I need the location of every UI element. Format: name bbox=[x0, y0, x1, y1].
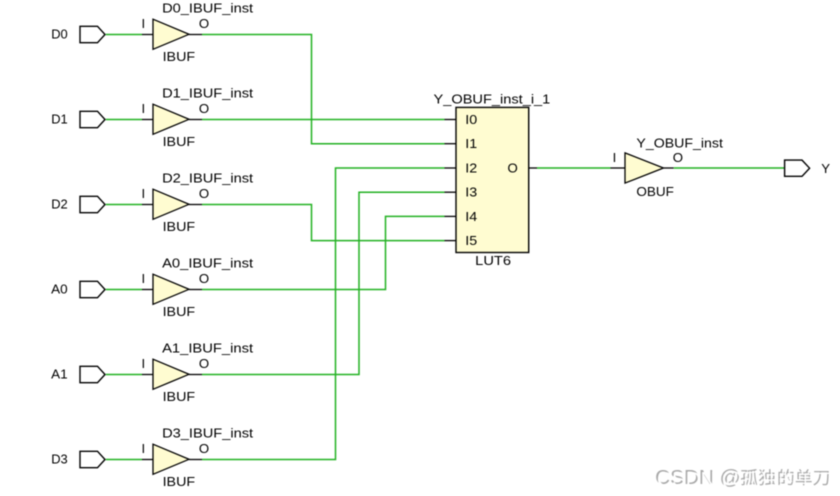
input port D3 bbox=[51, 451, 105, 467]
triangle body of D2_IBUF_inst bbox=[153, 189, 189, 219]
pin I1 of LUT6 bbox=[445, 136, 478, 151]
svg-text:I: I bbox=[141, 356, 145, 371]
wire LUT6 O to Y_OBUF_inst I bbox=[537, 167, 611, 169]
svg-text:I3: I3 bbox=[465, 185, 477, 200]
svg-text:D3_IBUF_inst: D3_IBUF_inst bbox=[162, 425, 253, 440]
svg-text:IBUF: IBUF bbox=[163, 304, 196, 319]
svg-text:D2_IBUF_inst: D2_IBUF_inst bbox=[162, 170, 253, 185]
svg-text:I2: I2 bbox=[465, 160, 477, 175]
buffer D2_IBUF_inst (IBUF) bbox=[141, 170, 253, 234]
svg-text:D1_IBUF_inst: D1_IBUF_inst bbox=[162, 85, 253, 100]
pin O of Y_OBUF_inst bbox=[664, 150, 684, 168]
pin O of D0_IBUF_inst bbox=[189, 16, 209, 34]
svg-text:I: I bbox=[141, 271, 145, 286]
buffer Y_OBUF_inst (OBUF) bbox=[611, 136, 724, 199]
buffer A1_IBUF_inst (IBUF) bbox=[141, 340, 253, 404]
triangle body of A0_IBUF_inst bbox=[153, 274, 189, 304]
pin I4 of LUT6 bbox=[445, 209, 478, 224]
pin I of D1_IBUF_inst bbox=[141, 101, 153, 119]
svg-text:IBUF: IBUF bbox=[163, 134, 196, 149]
input port A1 bbox=[51, 366, 105, 382]
wire D2_IBUF_inst O to LUT6 I5 bbox=[202, 205, 445, 241]
svg-text:I: I bbox=[141, 101, 145, 116]
triangle body of D3_IBUF_inst bbox=[153, 444, 189, 474]
wire A0_IBUF_inst O to LUT6 I4 bbox=[202, 216, 445, 289]
triangle body of Y_OBUF_inst bbox=[625, 153, 664, 183]
svg-text:D1: D1 bbox=[51, 112, 67, 127]
LUT Y_OBUF_inst_i_1 (LUT6) bbox=[434, 91, 551, 268]
svg-text:O: O bbox=[507, 160, 517, 175]
wire A0 port to A0_IBUF_inst I bbox=[106, 289, 142, 291]
svg-text:A0_IBUF_inst: A0_IBUF_inst bbox=[162, 255, 253, 270]
pin I of A0_IBUF_inst bbox=[141, 271, 153, 289]
wire D1 port to D1_IBUF_inst I bbox=[106, 119, 142, 121]
triangle body of D0_IBUF_inst bbox=[153, 19, 189, 49]
svg-text:O: O bbox=[199, 356, 209, 371]
svg-text:OBUF: OBUF bbox=[636, 184, 674, 199]
svg-text:I4: I4 bbox=[465, 209, 477, 224]
svg-text:I1: I1 bbox=[465, 136, 477, 151]
input port D1 bbox=[51, 111, 105, 127]
svg-text:D0_IBUF_inst: D0_IBUF_inst bbox=[162, 0, 253, 15]
svg-text:O: O bbox=[199, 101, 209, 116]
svg-text:A1: A1 bbox=[51, 367, 67, 382]
buffer A0_IBUF_inst (IBUF) bbox=[141, 255, 253, 319]
svg-text:A1_IBUF_inst: A1_IBUF_inst bbox=[162, 340, 253, 355]
wire Y_OBUF_inst O to port Y bbox=[674, 167, 785, 169]
svg-text:I: I bbox=[141, 186, 145, 201]
svg-text:Y_OBUF_inst: Y_OBUF_inst bbox=[636, 136, 723, 151]
wire D0 port to D0_IBUF_inst I bbox=[106, 34, 142, 36]
svg-text:Y: Y bbox=[821, 161, 830, 176]
svg-text:CSDN @: CSDN @ bbox=[657, 468, 743, 491]
svg-text:D0: D0 bbox=[51, 27, 67, 42]
buffer D0_IBUF_inst (IBUF) bbox=[141, 0, 253, 64]
pin O of D2_IBUF_inst bbox=[189, 186, 209, 204]
wire D3 port to D3_IBUF_inst I bbox=[106, 459, 142, 461]
pin O of D3_IBUF_inst bbox=[189, 441, 209, 459]
pin I of Y_OBUF_inst bbox=[611, 150, 626, 168]
svg-text:O: O bbox=[199, 441, 209, 456]
svg-text:IBUF: IBUF bbox=[163, 219, 196, 234]
pin I of D0_IBUF_inst bbox=[141, 16, 153, 34]
buffer D3_IBUF_inst (IBUF) bbox=[141, 425, 253, 489]
LUT6 body bbox=[456, 107, 529, 252]
pin O of A1_IBUF_inst bbox=[189, 356, 209, 374]
svg-text:I: I bbox=[141, 441, 145, 456]
svg-text:IBUF: IBUF bbox=[163, 49, 196, 64]
pin I of D3_IBUF_inst bbox=[141, 441, 153, 459]
svg-text:I: I bbox=[141, 16, 145, 31]
watermark CSDN @孤独的单刀 bbox=[655, 466, 830, 491]
input port D0 bbox=[51, 26, 105, 42]
input port D2 bbox=[51, 196, 105, 212]
svg-text:O: O bbox=[199, 271, 209, 286]
svg-text:I5: I5 bbox=[465, 233, 477, 248]
input port A0 bbox=[51, 281, 105, 297]
pin I of D2_IBUF_inst bbox=[141, 186, 153, 204]
svg-text:A0: A0 bbox=[51, 282, 67, 297]
svg-text:D3: D3 bbox=[51, 452, 67, 467]
wire D0_IBUF_inst O to LUT6 I1 bbox=[202, 35, 445, 144]
svg-text:LUT6: LUT6 bbox=[475, 253, 511, 268]
triangle body of D1_IBUF_inst bbox=[153, 104, 189, 134]
pin I0 of LUT6 bbox=[445, 112, 478, 127]
wire D1_IBUF_inst O to LUT6 I0 bbox=[202, 119, 445, 121]
svg-text:O: O bbox=[199, 16, 209, 31]
wire A1_IBUF_inst O to LUT6 I3 bbox=[202, 192, 445, 374]
svg-text:I: I bbox=[613, 150, 617, 165]
pin O of A0_IBUF_inst bbox=[189, 271, 209, 289]
svg-text:O: O bbox=[199, 186, 209, 201]
wire A1 port to A1_IBUF_inst I bbox=[106, 374, 142, 376]
svg-text:IBUF: IBUF bbox=[163, 474, 196, 489]
wire D3_IBUF_inst O to LUT6 I2 bbox=[202, 168, 445, 460]
pin O of D1_IBUF_inst bbox=[189, 101, 209, 119]
pin O of LUT6 bbox=[507, 160, 537, 175]
buffer D1_IBUF_inst (IBUF) bbox=[141, 85, 253, 149]
svg-text:O: O bbox=[673, 150, 683, 165]
triangle body of A1_IBUF_inst bbox=[153, 359, 189, 389]
pin I2 of LUT6 bbox=[445, 160, 478, 175]
pin I3 of LUT6 bbox=[445, 185, 478, 200]
pin I of A1_IBUF_inst bbox=[141, 356, 153, 374]
pin I5 of LUT6 bbox=[445, 233, 478, 248]
output port Y bbox=[785, 160, 831, 176]
svg-text:I0: I0 bbox=[465, 112, 477, 127]
wire D2 port to D2_IBUF_inst I bbox=[106, 204, 142, 206]
svg-text:D2: D2 bbox=[51, 197, 67, 212]
svg-text:Y_OBUF_inst_i_1: Y_OBUF_inst_i_1 bbox=[434, 91, 551, 106]
svg-text:IBUF: IBUF bbox=[163, 389, 196, 404]
